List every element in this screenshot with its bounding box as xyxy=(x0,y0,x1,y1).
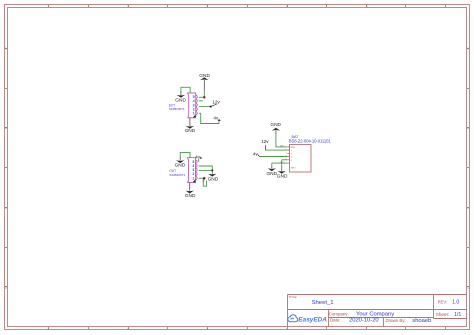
svg-text:B: B xyxy=(5,126,7,130)
svg-text:MH2: MH2 xyxy=(291,168,296,170)
svg-text:Drawn By:: Drawn By: xyxy=(386,318,406,323)
svg-text:REV:: REV: xyxy=(438,300,448,305)
svg-text:1: 1 xyxy=(193,112,195,116)
svg-text:GND: GND xyxy=(199,73,210,79)
svg-text:1.0: 1.0 xyxy=(452,300,459,306)
svg-text:Sheet_1: Sheet_1 xyxy=(312,300,334,306)
svg-text:GND: GND xyxy=(277,174,288,180)
svg-text:A: A xyxy=(467,47,469,51)
svg-text:GND: GND xyxy=(185,128,196,134)
svg-text:GND: GND xyxy=(175,97,186,103)
svg-text:4v: 4v xyxy=(195,155,200,160)
svg-text:1/1: 1/1 xyxy=(454,312,461,318)
svg-text:4v: 4v xyxy=(214,115,219,120)
svg-text:B: B xyxy=(467,126,469,130)
svg-text:GND: GND xyxy=(270,122,281,128)
svg-text:A: A xyxy=(5,47,7,51)
svg-text:4v: 4v xyxy=(253,151,258,156)
svg-text:12v: 12v xyxy=(261,139,269,144)
svg-text:1: 1 xyxy=(192,176,194,180)
svg-text:GND: GND xyxy=(185,193,196,199)
svg-text:shoaeb: shoaeb xyxy=(412,318,431,324)
svg-text:Date:: Date: xyxy=(330,318,341,323)
svg-text:TITLE:: TITLE: xyxy=(289,295,298,299)
svg-text:Company:: Company: xyxy=(329,312,349,317)
svg-text:S32B105T1: S32B105T1 xyxy=(169,173,185,177)
svg-text:GND: GND xyxy=(208,176,219,182)
svg-text:12v: 12v xyxy=(213,100,221,105)
svg-text:EasyEDA: EasyEDA xyxy=(298,316,327,323)
svg-text:S32B105T1: S32B105T1 xyxy=(169,107,185,111)
svg-text:GND: GND xyxy=(175,163,186,169)
svg-text:Sheet:: Sheet: xyxy=(436,312,450,317)
svg-text:MH1: MH1 xyxy=(291,147,296,149)
svg-text:BS8-Z2-004-10-011101: BS8-Z2-004-10-011101 xyxy=(289,138,332,143)
svg-text:2020-10-20: 2020-10-20 xyxy=(349,318,379,324)
